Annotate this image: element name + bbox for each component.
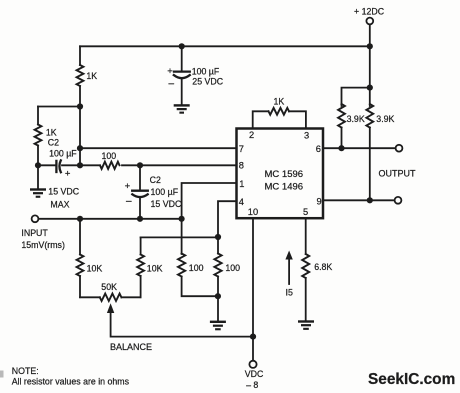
svg-text:3.9K: 3.9K: [347, 114, 365, 124]
junction node: 100s ground: [215, 293, 221, 299]
wire: pin 6 output line: [323, 147, 396, 149]
resistor 100 (x=181.5 vertical): [178, 254, 185, 277]
svg-text:NOTE:: NOTE:: [12, 366, 39, 376]
svg-text:8: 8: [239, 161, 244, 171]
terminal OUTPUT bottom: [395, 197, 402, 204]
wire: pin 10 to VDC -8 terminal: [252, 219, 254, 361]
scan smudge left edge: [0, 371, 4, 378]
junction node: bias/C2: [35, 162, 41, 168]
junction node: 3.9K branch: [367, 85, 373, 91]
svg-text:9: 9: [317, 196, 322, 206]
wire: pin 2 / pin 3 stubs with 1K feedback resistor: [253, 111, 306, 128]
wire: pin1 column down into 100 ohm: [181, 219, 183, 254]
wire: balance wiper line: [111, 311, 253, 337]
svg-text:1K: 1K: [46, 128, 57, 138]
wire: 100 (second) column from pin4 node: [217, 237, 219, 254]
svg-text:15 VDC: 15 VDC: [48, 187, 79, 197]
junction node: rail/C1: [179, 43, 185, 49]
wire: pin 5 into 6.8K: [305, 219, 307, 255]
svg-text:VDC: VDC: [245, 369, 264, 379]
svg-text:3: 3: [304, 130, 309, 140]
svg-text:100: 100: [189, 263, 204, 273]
resistor 1K (carrier, x=80): [77, 65, 84, 86]
wire: right column into 3.9K: [369, 88, 371, 106]
svg-text:2: 2: [249, 130, 254, 140]
ground (bias node, x=38): [30, 188, 46, 198]
resistor 100 (x=217.9 vertical): [214, 254, 221, 277]
wire: 100 ohm to pin 8: [122, 164, 237, 166]
wire: 10K left bottom to pot: [79, 276, 81, 297]
junction node: input/pin1: [179, 216, 185, 222]
svg-text:100 µF: 100 µF: [49, 148, 77, 158]
svg-text:MC 1596: MC 1596: [265, 169, 304, 180]
wire: 10K right bottom to pot: [140, 276, 142, 297]
wire: pin 7 connection: [80, 147, 237, 149]
svg-text:C2: C2: [150, 175, 161, 185]
junction node: pin7 tap: [77, 145, 83, 151]
terminal VDC -8: [249, 361, 256, 368]
arrowhead: I5: [285, 251, 292, 260]
svg-text:100 µF: 100 µF: [151, 187, 179, 197]
ground (below 6.8K, x=305.6): [298, 320, 314, 330]
terminal OUTPUT top: [396, 145, 403, 152]
svg-text:10K: 10K: [147, 263, 163, 273]
resistor 3.9K (left): [338, 104, 345, 128]
capacitor C1 plates: [174, 70, 190, 72]
junction node: pin4/100: [215, 234, 221, 240]
junction node: balance/pin10: [250, 334, 256, 340]
svg-text:100: 100: [225, 263, 240, 273]
ground (below 100s, x=217.9): [210, 321, 226, 331]
wire: pot end wires: [80, 296, 141, 298]
wire: left 3.9K to pin6 line: [341, 128, 343, 149]
junction node: pin8 chain x=80: [77, 162, 83, 168]
svg-text:1K: 1K: [86, 71, 97, 81]
junction node: left 3.9K to pin6: [338, 145, 344, 151]
wire: I5 current arrow shaft: [288, 258, 290, 284]
svg-text:100: 100: [102, 151, 117, 161]
resistor 6.8K (x=305.6): [302, 254, 309, 278]
svg-text:3.9K: 3.9K: [376, 114, 394, 124]
potentiometer 50K body: [100, 294, 122, 301]
junction node: rail/+12 column: [367, 43, 373, 49]
svg-text:1: 1: [239, 179, 244, 189]
IC U1 MC1596/MC1496 body: [237, 129, 324, 219]
svg-text:7: 7: [239, 144, 244, 154]
resistor 100 (x=99-120.5, horizontal): [100, 162, 119, 169]
wire: 10K (right) top stub: [140, 237, 142, 254]
resistor 1K (bias, x=38): [35, 125, 42, 146]
wire: +12DC terminal drop: [369, 25, 371, 88]
wire: node to left bias column: [38, 106, 80, 108]
resistor 10K (right, x=140.6): [137, 255, 144, 276]
wire: input line: [39, 218, 182, 220]
svg-text:6.8K: 6.8K: [314, 262, 332, 272]
svg-text:+ 12DC: + 12DC: [354, 7, 385, 17]
wire: branch to left 3.9K: [342, 88, 370, 106]
wire: top rail into 1K carrier resistor: [79, 46, 81, 65]
wire: pin 9 output line: [323, 199, 395, 201]
ground (below C1, x=181.7): [174, 104, 190, 114]
svg-text:100 µF: 100 µF: [192, 66, 220, 76]
svg-text:+: +: [125, 181, 131, 192]
wire: 100 bottom corner to ground node: [182, 277, 218, 297]
terminal INPUT: [32, 215, 39, 222]
wire: pin 1 connection with drop to input line: [182, 183, 237, 219]
svg-text:25 VDC: 25 VDC: [192, 76, 223, 86]
wire: capacitor to 100 ohm resistor: [62, 164, 99, 166]
wire: pin 4 connection with drop: [218, 201, 237, 237]
svg-text:10K: 10K: [87, 263, 103, 273]
wire: right 3.9K down to pin 9 line: [369, 128, 371, 201]
junction node: right 3.9K to pin9: [367, 197, 373, 203]
svg-text:MAX: MAX: [50, 199, 69, 209]
svg-text:I5: I5: [286, 287, 293, 297]
svg-text:All resistor values are in ohm: All resistor values are in ohms: [12, 377, 130, 387]
terminal +12DC: [366, 18, 373, 25]
svg-text:–: –: [126, 196, 132, 207]
capacitor C2 100uF 15VDC (vertical at x=140) top stub: [139, 165, 141, 190]
resistor 1K (top, between pins 2 and 3): [269, 108, 290, 115]
wire: C1 to ground: [181, 79, 183, 104]
svg-text:+: +: [65, 168, 71, 179]
svg-text:10: 10: [248, 207, 258, 217]
wire: 1K bottom down to pin 7 / pin 8 node: [79, 86, 81, 165]
capacitor C2 100uF (horizontal): [55, 161, 57, 172]
svg-text:– 8: – 8: [246, 380, 258, 390]
arrowhead: 50K wiper: [107, 303, 114, 313]
capacitor C2 (vertical) plates: [132, 190, 148, 192]
svg-text:+: +: [167, 66, 173, 77]
capacitor C1 100uF 25VDC: top rail drop: [181, 46, 183, 71]
svg-text:15mV(rms): 15mV(rms): [21, 240, 65, 250]
junction node: input/10K: [77, 216, 83, 222]
svg-text:MC 1496: MC 1496: [265, 182, 304, 193]
junction node: carrier divider: [77, 103, 83, 109]
wire: 1K bottom to C2 node: [37, 146, 39, 166]
svg-text:C2: C2: [48, 137, 59, 147]
wire: 100 bottom to ground: [217, 277, 219, 321]
svg-text:BALANCE: BALANCE: [110, 342, 152, 352]
svg-text:5: 5: [303, 207, 308, 217]
svg-text:50K: 50K: [101, 282, 117, 292]
wire: node to capacitor C2 (horizontal): [38, 164, 56, 166]
wire: ground stub of bias node: [37, 165, 39, 188]
resistor 10K (left, x=80): [77, 255, 84, 276]
svg-text:SeekIC.com: SeekIC.com: [368, 371, 455, 388]
wire: 6.8K to ground: [305, 278, 307, 320]
svg-text:4: 4: [239, 197, 244, 207]
wire: C2 bottom to input line: [139, 198, 141, 219]
svg-text:1K: 1K: [274, 97, 285, 107]
wire: left column into 1K: [37, 107, 39, 125]
resistor 3.9K (right): [366, 104, 373, 128]
svg-text:15 VDC: 15 VDC: [151, 199, 182, 209]
wire: +12V top rail: [80, 45, 370, 47]
wire: 10K (left) from input line: [79, 219, 81, 255]
junction node: input/C2 bottom: [137, 216, 143, 222]
junction node: pin8/C2 top: [137, 162, 143, 168]
svg-text:OUTPUT: OUTPUT: [379, 169, 417, 179]
svg-text:6: 6: [316, 144, 321, 154]
svg-text:INPUT: INPUT: [21, 228, 48, 238]
wire: modulation balance top wire y=237: [141, 236, 218, 238]
svg-text:–: –: [169, 78, 175, 89]
